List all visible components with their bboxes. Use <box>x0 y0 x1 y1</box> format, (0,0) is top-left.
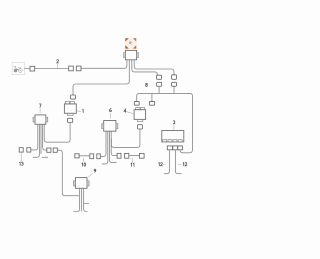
connector A1 <box>157 75 162 79</box>
component 7 harness wire 2 (center, hooks left) <box>33 124 39 157</box>
label 9 <box>89 173 93 177</box>
component 6 harness wire 2 (hooks left) <box>102 131 108 164</box>
component 9 harness wire mid <box>81 188 83 211</box>
wire: pair to far-left connector <box>35 68 69 70</box>
connector L1 <box>134 101 139 105</box>
linkage 10 wire <box>79 155 90 157</box>
component 4 caps <box>136 108 140 110</box>
label 12 (left) <box>163 163 167 165</box>
component 7 left splay connector pair <box>27 148 31 152</box>
component 6 right splay connector pair <box>117 153 121 158</box>
component 7 box <box>35 115 46 124</box>
component 3 lower connector squares <box>167 146 172 150</box>
component 1 box <box>64 104 76 113</box>
component 6 left ear <box>102 124 104 129</box>
label 4 <box>127 112 134 114</box>
connector pair on left wire <box>76 66 81 71</box>
component 7 harness wire 3 <box>40 124 42 153</box>
wire: main box to connector B1 <box>134 60 174 75</box>
component 6 harness wire 3 (right tick) <box>110 131 117 162</box>
label 8 <box>146 83 148 86</box>
label 10 <box>83 158 85 161</box>
component 6 left splay connector pair <box>97 154 101 159</box>
label 2 <box>57 64 59 68</box>
linkage 11 wire <box>129 155 140 157</box>
component 9 harness wire left (hooks left) <box>74 188 80 211</box>
stub A2 to bus <box>158 86 160 93</box>
main box left ear <box>124 53 126 58</box>
connector B1 <box>172 75 177 80</box>
dashed vehicle box <box>12 63 24 75</box>
component 9 harness right tick <box>84 203 89 205</box>
component 7 left ear <box>33 117 35 122</box>
component 3 wire to bus <box>180 150 183 153</box>
label 1 <box>77 110 81 113</box>
wire: main box down to component 1 <box>73 60 129 95</box>
component 6 harness wire 1 (to left splay) <box>100 131 106 156</box>
component 7 harness wire 4 (to right splay) <box>43 124 47 150</box>
component 7 right splay connector pair <box>47 148 51 152</box>
component 9 left ear <box>73 181 75 186</box>
component 1 bottom nub <box>67 113 73 115</box>
stub B2 to bus <box>173 86 175 93</box>
component 9 box <box>76 178 88 189</box>
component 3 box <box>162 131 184 142</box>
connector B2 <box>172 82 177 86</box>
main box right ear <box>137 53 139 58</box>
component 6 box <box>104 121 116 132</box>
component 1: top connector <box>71 95 76 99</box>
component 6 right ear <box>116 124 118 129</box>
component 3 wire right (foot hooks right) <box>175 150 181 174</box>
component 7 harness wire 1 (to left splay) <box>31 124 38 150</box>
component 1 bottom connector <box>68 118 73 122</box>
component 7 harness right tick <box>42 156 47 158</box>
main connector box (top center) <box>125 50 136 59</box>
wire: component 4 to component 6 harness <box>111 129 139 147</box>
component 3 terminal cells <box>163 140 167 142</box>
component 4 bottom connector <box>138 125 143 129</box>
label 7 <box>39 108 41 113</box>
component 7 right ear <box>46 117 48 122</box>
linkage 10 left square <box>75 154 79 158</box>
label 11 <box>132 158 134 162</box>
component 1 caps <box>65 102 69 104</box>
component 9 right ear <box>87 181 89 186</box>
component 3 wire left (foot hooks left) <box>164 150 169 174</box>
component 9 harness wire right (hooks right) <box>84 188 88 211</box>
selection marker inner glyph <box>129 41 132 45</box>
component 4 bottom nub <box>138 119 143 121</box>
far-left connector square <box>30 66 35 71</box>
connector L2 <box>149 101 154 105</box>
linkage 11 right square <box>140 153 145 158</box>
vehicle (scooter) icon <box>14 66 22 72</box>
wire: main box to connector A1 <box>132 60 158 75</box>
wire: main box to left connector pair <box>81 60 127 69</box>
label 13 <box>20 152 22 161</box>
component 4 box <box>134 110 146 120</box>
wire: comp 7 splay to component 9 harness <box>57 150 78 196</box>
connector A2 <box>157 82 162 86</box>
stub to dashed vehicle box <box>25 68 31 70</box>
selection marker (orange corner wedges) <box>125 38 137 50</box>
bus branch to connector L2 <box>151 93 153 101</box>
wire: component 1 to component 7 harness <box>44 123 70 143</box>
component 6 harness wire 4 (to right splay) <box>111 131 117 155</box>
bus wire <box>137 93 193 152</box>
label 12 (right) <box>178 163 182 165</box>
label 3 <box>173 125 175 130</box>
label 6 <box>109 113 111 118</box>
